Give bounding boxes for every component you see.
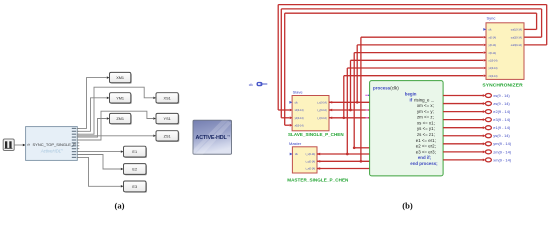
svg-text:zs <= z1;: zs <= z1; [417, 132, 435, 137]
svg-text:t_z(0-14): t_z(0-14) [305, 168, 315, 171]
svg-text:ZS1: ZS1 [164, 134, 171, 138]
svg-text:t_z(0-14): t_z(0-14) [317, 117, 327, 120]
svg-text:Sync: Sync [487, 16, 496, 21]
svg-text:XM1: XM1 [116, 76, 124, 80]
svg-text:YS1: YS1 [164, 117, 171, 121]
svg-text:rising_e ...: rising_e ... [414, 97, 434, 102]
svg-text:zm(9 - 14): zm(9 - 14) [493, 149, 511, 154]
svg-text:e3 <= er3;: e3 <= er3; [416, 149, 436, 154]
svg-text:t_y(0-14): t_y(0-14) [305, 161, 315, 164]
svg-text:XS1: XS1 [164, 96, 171, 100]
svg-text:xm(9 - 14): xm(9 - 14) [493, 157, 511, 162]
svg-text:SYNCHRONIZER: SYNCHRONIZER [482, 82, 523, 88]
svg-text:t_x(0-14): t_x(0-14) [305, 153, 315, 156]
svg-text:SYNC_TOP_SINGLE_P: SYNC_TOP_SINGLE_P [33, 142, 77, 147]
svg-text:begin: begin [405, 92, 417, 97]
svg-text:e1 <= er1;: e1 <= er1; [416, 138, 436, 143]
svg-text:E1: E1 [132, 150, 137, 154]
svg-text:x0(0-14): x0(0-14) [295, 109, 304, 112]
svg-text:TM: TM [227, 135, 230, 137]
svg-text:x1(0-14): x1(0-14) [489, 60, 498, 63]
svg-text:xm <= x;: xm <= x; [417, 103, 434, 108]
svg-text:out3(0-14): out3(0-14) [511, 44, 522, 47]
svg-text:e3(9 - 14): e3(9 - 14) [493, 117, 511, 122]
svg-text:SLAVE_SINGLE_P_CHEN: SLAVE_SINGLE_P_CHEN [288, 132, 344, 137]
svg-text:end if;: end if; [418, 155, 432, 160]
svg-text:ZM1: ZM1 [116, 117, 124, 121]
svg-text:ym <= y;: ym <= y; [417, 109, 434, 114]
svg-text:Master: Master [289, 141, 302, 146]
svg-text:YM1: YM1 [116, 96, 124, 100]
svg-text:clk: clk [249, 83, 253, 87]
svg-text:z1(0-14): z1(0-14) [489, 75, 498, 78]
svg-text:process: process [373, 85, 391, 90]
svg-text:t_x(0-14): t_x(0-14) [317, 102, 327, 105]
svg-text:(b): (b) [402, 201, 413, 211]
svg-text:xs <= x1;: xs <= x1; [417, 120, 435, 125]
svg-text:x(0-14): x(0-14) [489, 36, 497, 39]
svg-text:ACTIVE-HDL: ACTIVE-HDL [196, 135, 228, 141]
svg-text:MASTER_SINGLE_P_CHEN: MASTER_SINGLE_P_CHEN [287, 177, 349, 182]
svg-text:e1(9 - 14): e1(9 - 14) [493, 125, 511, 130]
svg-text:z(0-14): z(0-14) [489, 52, 497, 55]
svg-text:(clk): (clk) [390, 85, 399, 90]
svg-text:z0(0-14): z0(0-14) [295, 124, 304, 127]
svg-text:xs(9 - 14): xs(9 - 14) [493, 93, 510, 98]
svg-text:out2(0-14): out2(0-14) [511, 36, 522, 39]
svg-text:ys <= y1;: ys <= y1; [417, 126, 435, 131]
svg-text:y1(0-14): y1(0-14) [489, 67, 498, 70]
svg-text:ys(9 - 14): ys(9 - 14) [493, 133, 510, 138]
svg-text:out1(0-14): out1(0-14) [511, 29, 522, 32]
svg-text:Slave: Slave [293, 90, 304, 95]
svg-text:E2: E2 [132, 167, 137, 171]
svg-text:t_y(0-14): t_y(0-14) [317, 109, 327, 112]
svg-text:end process;: end process; [410, 161, 438, 166]
svg-text:zs(9 - 14): zs(9 - 14) [493, 101, 510, 106]
svg-text:E3: E3 [132, 185, 137, 189]
svg-text:e2(9 - 14): e2(9 - 14) [493, 109, 511, 114]
svg-text:y(0-14): y(0-14) [489, 44, 497, 47]
svg-text:e2 <= er2;: e2 <= er2; [416, 144, 436, 149]
svg-text:ym(9 - 14): ym(9 - 14) [493, 141, 511, 146]
svg-text:ActiveHDL: ActiveHDL [40, 149, 62, 154]
svg-text:y0(0-14): y0(0-14) [295, 117, 304, 120]
svg-text:(a): (a) [114, 201, 124, 211]
svg-text:zm <= z;: zm <= z; [417, 115, 434, 120]
